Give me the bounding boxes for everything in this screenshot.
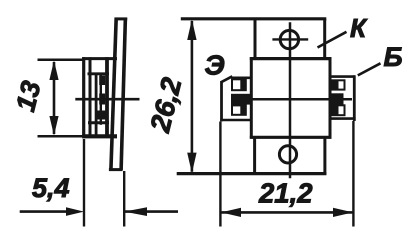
horizontal centerline [231,98,352,101]
vertical centerline [289,22,292,178]
horizontal centerline (side view) [75,98,139,101]
svg-text:5,4: 5,4 [32,173,70,203]
left leads [231,79,251,115]
top mounting ear [255,19,325,59]
dimension 26,2: dimension line [191,21,194,172]
right leads [329,80,345,115]
dimension 5,4: dimension line with outside arrows [20,210,70,213]
dimension 13: arrowheads [49,60,58,135]
body inner step lines (side view) [88,57,110,137]
dimension 13: dimension line [53,62,56,134]
svg-text:21,2: 21,2 [258,178,313,209]
dimension 13: extension lines [38,59,85,62]
base-side bracket (right) [330,75,356,121]
top edge line (ear top + 26,2 top extension) [181,17,326,20]
top mounting hole with cross [272,30,308,48]
main body (front view) [250,57,332,139]
flange (side view vertical bar) [109,18,127,170]
electrode label К (collector) with leader [318,32,347,48]
dimension 5,4: extension lines [83,139,85,227]
lead seals seen from side (dark blocks) [98,76,106,120]
svg-text:Б: Б [384,42,403,72]
bottom edge line (ear bottom + 26,2 bottom extension) [177,172,327,175]
dimension 21,2: dimension line with arrows [221,211,353,214]
emitter-side bracket (left) with chamfer [220,76,250,121]
electrode label Б (base) with leader [358,63,381,75]
body outline (side view) [82,57,117,137]
bottom mounting ear [255,136,325,175]
svg-text:К: К [350,13,368,43]
bottom mounting hole [279,146,296,163]
svg-text:Э: Э [205,50,225,81]
dimension 21,2: extension lines [219,122,221,227]
